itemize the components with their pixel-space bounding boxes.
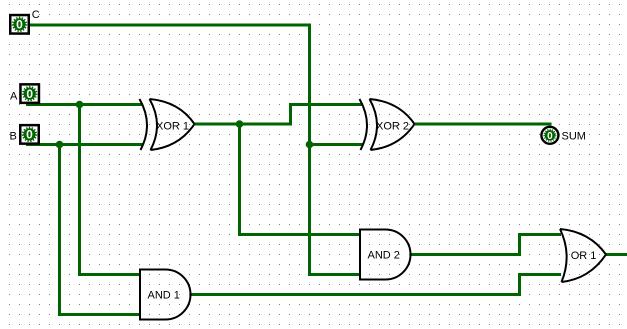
wire XOR1 output branch down to AND2 top input (240, 124, 362, 235)
svg-text:XOR 1: XOR 1 (156, 120, 189, 132)
wire C branch to XOR2 bottom input (310, 143, 364, 146)
wire A to XOR1 top input (26, 103, 143, 106)
svg-text:0: 0 (547, 131, 553, 142)
junction on XOR1 output (236, 120, 244, 128)
OR 1 gate (560, 229, 606, 282)
output indicator SUM (541, 127, 558, 144)
svg-text:B: B (10, 131, 17, 143)
wire B to XOR1 bottom input (26, 143, 143, 146)
wire B branch down to AND1 bottom input (60, 145, 142, 315)
svg-text:XOR 2: XOR 2 (376, 120, 409, 132)
wire XOR2 output to SUM (415, 123, 552, 126)
XOR 1 gate (140, 99, 195, 150)
wire OR1 output (606, 253, 627, 256)
input switch A (20, 84, 39, 103)
svg-text:OR 1: OR 1 (571, 250, 597, 262)
input switch C (10, 15, 29, 34)
wire AND2 output to OR1 top input (410, 235, 561, 255)
AND 1 gate (140, 270, 191, 320)
XOR 2 gate (360, 99, 415, 150)
svg-text:AND 2: AND 2 (368, 250, 400, 262)
junction on wire B (56, 141, 64, 149)
junction on wire A (76, 101, 84, 109)
svg-text:AND 1: AND 1 (148, 290, 180, 302)
wire A branch down to AND1 top input (80, 105, 142, 275)
wire AND1 output to OR1 bottom input (191, 275, 562, 295)
wire C: from switch C right, down at x=309.5, to AND2 bottom input (25, 25, 361, 275)
svg-text:SUM: SUM (562, 131, 586, 143)
junction on wire C vertical (306, 141, 314, 149)
svg-text:A: A (10, 91, 18, 103)
input switch B (20, 125, 39, 144)
wire XOR1 output to XOR2 top input (195, 105, 363, 125)
AND 2 gate (360, 230, 411, 280)
svg-text:C: C (32, 9, 40, 21)
